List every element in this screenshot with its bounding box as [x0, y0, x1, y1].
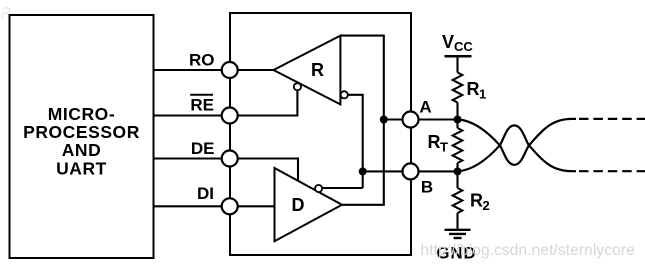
svg-text:UART: UART — [56, 158, 107, 178]
bubble receiver inverting input — [341, 91, 348, 98]
pin /RE — [222, 108, 238, 124]
wire node A — [384, 118, 458, 120]
svg-text:DE: DE — [191, 139, 215, 158]
svg-text:A: A — [419, 98, 431, 117]
svg-text:R: R — [428, 132, 441, 152]
twisted pair wire A — [458, 119, 577, 165]
wire driver output Y — [342, 120, 384, 205]
svg-text:B: B — [421, 177, 433, 196]
wire B dashed continuation — [579, 170, 645, 172]
svg-text:DI: DI — [197, 184, 214, 203]
wire RO — [154, 69, 274, 71]
wire node B — [363, 170, 458, 172]
svg-text:R: R — [467, 79, 480, 99]
wire R1 to node A — [456, 103, 458, 120]
pin DE — [222, 151, 238, 167]
svg-text:MICRO-: MICRO- — [48, 104, 115, 124]
ground — [445, 229, 471, 231]
pin A — [403, 112, 419, 128]
svg-text:2: 2 — [483, 198, 490, 213]
wire receiver input A — [340, 36, 383, 120]
receiver R — [274, 36, 341, 105]
svg-text:T: T — [440, 140, 448, 155]
svg-text:RE: RE — [190, 95, 214, 114]
pin RO — [222, 62, 238, 78]
pin B — [403, 163, 419, 179]
wire driver output Z — [322, 187, 363, 189]
svg-text:1: 1 — [479, 87, 486, 102]
svg-text:D: D — [292, 195, 305, 215]
resistor RT — [456, 120, 458, 129]
junction dot B internal — [359, 167, 367, 175]
transceiver block U1 — [230, 13, 411, 255]
pin DI — [222, 198, 238, 214]
svg-text:http://blog.csdn.net/sternlyco: http://blog.csdn.net/sternlycore — [421, 242, 635, 259]
svg-text:PROCESSOR: PROCESSOR — [23, 122, 140, 142]
svg-text:RO: RO — [189, 51, 215, 70]
wire /RE — [154, 91, 298, 116]
driver D — [275, 168, 343, 241]
svg-text:AND: AND — [62, 140, 102, 160]
twisted pair wire B — [458, 125, 577, 171]
wire receiver input B — [348, 95, 363, 188]
svg-text:V: V — [442, 32, 454, 52]
svg-text:R: R — [470, 191, 483, 211]
resistor R1 — [453, 73, 463, 103]
wire A dashed continuation — [579, 118, 645, 120]
wire R2 to ground — [456, 213, 458, 229]
svg-text:R: R — [311, 60, 324, 80]
junction dot A internal — [380, 116, 388, 124]
resistor R2 — [456, 171, 458, 188]
svg-text:CC: CC — [454, 39, 473, 54]
microprocessor block U-MCU — [10, 15, 154, 258]
junction dot A termination — [454, 116, 462, 124]
bubble driver inverting output — [315, 185, 322, 192]
wire DI — [154, 205, 275, 207]
wire DE — [154, 159, 299, 182]
junction dot B termination — [454, 167, 462, 175]
bubble receiver enable — [294, 83, 301, 90]
wire VCC to R1 — [456, 56, 458, 72]
